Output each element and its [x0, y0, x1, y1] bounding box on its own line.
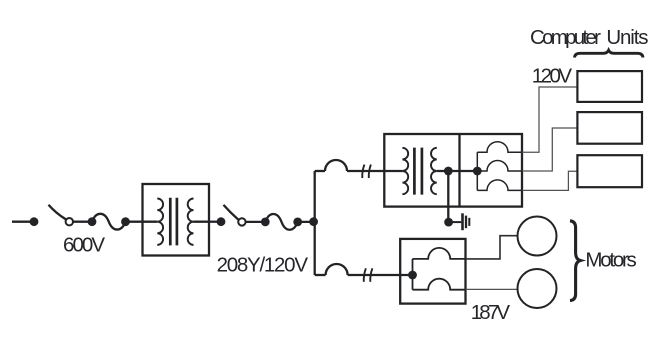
svg-text:Units: Units — [606, 26, 648, 49]
svg-text:600V: 600V — [63, 233, 105, 256]
svg-text:208Y/120V: 208Y/120V — [217, 253, 309, 276]
svg-text:Motors: Motors — [585, 249, 636, 272]
svg-text:187V: 187V — [471, 301, 511, 324]
svg-text:Computer: Computer — [530, 26, 601, 49]
svg-text:120V: 120V — [532, 65, 573, 88]
